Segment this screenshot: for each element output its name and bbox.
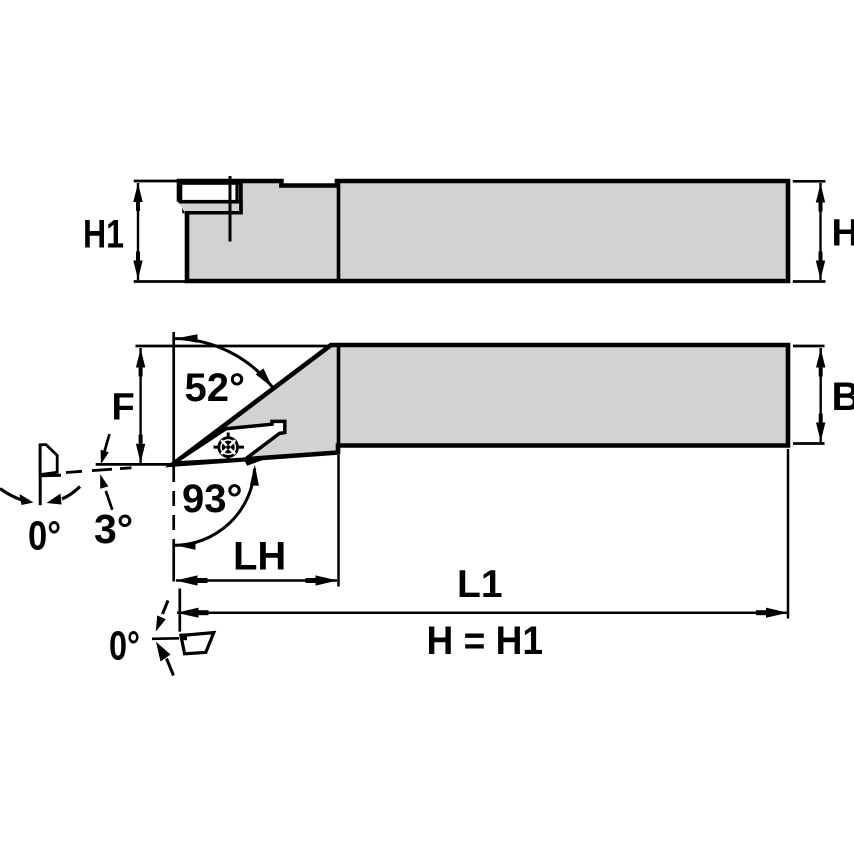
svg-text:F: F: [112, 387, 135, 429]
svg-text:LH: LH: [233, 535, 286, 579]
svg-text:0°: 0°: [28, 513, 61, 559]
svg-text:L1: L1: [457, 563, 503, 606]
svg-text:3°: 3°: [94, 506, 133, 552]
svg-text:52°: 52°: [185, 366, 246, 410]
svg-text:93°: 93°: [182, 477, 243, 521]
svg-text:0°: 0°: [109, 623, 140, 669]
svg-text:H1: H1: [83, 213, 124, 257]
svg-text:H = H1: H = H1: [427, 619, 544, 663]
svg-text:H: H: [832, 213, 854, 255]
svg-text:B: B: [832, 375, 854, 419]
